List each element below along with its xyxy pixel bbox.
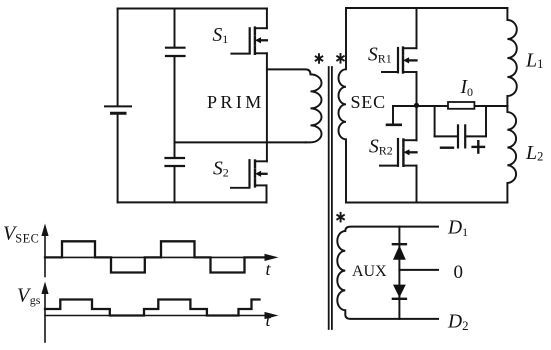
- svg-text:t: t: [266, 310, 272, 330]
- transformer aux winding: [337, 227, 438, 319]
- dot marker secondary: [337, 54, 344, 63]
- wire capacitor rail upper: [174, 9, 176, 48]
- wire diode column: [398, 227, 400, 319]
- svg-text:S2: S2: [213, 159, 229, 180]
- capacitor C2: [166, 158, 185, 166]
- waveform V_SEC trace: [45, 241, 266, 272]
- battery V_in: [105, 106, 131, 113]
- wire left vertical lower: [117, 113, 119, 202]
- svg-text:I0: I0: [460, 77, 474, 99]
- dot marker aux: [337, 213, 344, 222]
- inductor L2: [507, 106, 516, 203]
- svg-text:t: t: [266, 259, 272, 279]
- svg-text:D1: D1: [447, 218, 468, 240]
- wire output node line: [393, 105, 507, 107]
- wire capacitor rail middle: [174, 56, 176, 158]
- wire switch-node rail (S1 source to S2 drain): [266, 53, 268, 161]
- waveform V_gs trace: [45, 300, 260, 316]
- svg-text:0: 0: [454, 262, 464, 283]
- svg-text:SEC: SEC: [351, 92, 386, 112]
- wire SR1 source to node: [416, 72, 418, 140]
- node junction dot: [414, 103, 419, 108]
- svg-text:S1: S1: [213, 25, 229, 46]
- dot marker primary: [316, 54, 323, 63]
- svg-text:D2: D2: [447, 312, 469, 334]
- plus sign: [473, 141, 484, 152]
- transistor S2: [231, 160, 267, 202]
- svg-text:gs: gs: [30, 293, 41, 307]
- svg-text:SR1: SR1: [368, 44, 392, 65]
- output capacitor branch: [435, 106, 486, 147]
- transistor S1: [231, 9, 267, 54]
- wire capacitor rail lower: [174, 166, 176, 202]
- wire left vertical upper: [117, 9, 119, 106]
- waveform axes V_gs: [45, 288, 270, 342]
- resistor / current source I0: [448, 102, 474, 109]
- svg-text:SR2: SR2: [369, 136, 393, 157]
- minus sign: [441, 146, 453, 148]
- transistor SR2: [380, 106, 417, 203]
- transformer core: [329, 67, 332, 329]
- waveform axes V_SEC: [45, 230, 270, 277]
- diode upper (to D1): [393, 244, 406, 260]
- svg-text:L1: L1: [525, 50, 543, 72]
- transistor SR1: [382, 8, 417, 73]
- wire top rail secondary side: [346, 7, 507, 9]
- svg-text:PRIM: PRIM: [207, 92, 265, 112]
- inductor L1: [507, 8, 516, 106]
- capacitor C1: [166, 48, 185, 56]
- terminal bar below node: [387, 106, 401, 125]
- wire bottom rail secondary side: [346, 202, 507, 204]
- svg-text:AUX: AUX: [352, 263, 387, 280]
- diode lower (to D2): [393, 285, 406, 299]
- transformer primary winding: [267, 69, 322, 142]
- svg-text:SEC: SEC: [15, 232, 39, 246]
- wire capacitor midpoint to primary bottom: [175, 141, 306, 143]
- wire bottom rail primary side: [118, 201, 267, 203]
- wire middle tap: [399, 269, 438, 271]
- transformer secondary winding SEC: [339, 8, 347, 203]
- svg-text:L2: L2: [525, 142, 543, 164]
- wire top rail primary side: [118, 8, 267, 10]
